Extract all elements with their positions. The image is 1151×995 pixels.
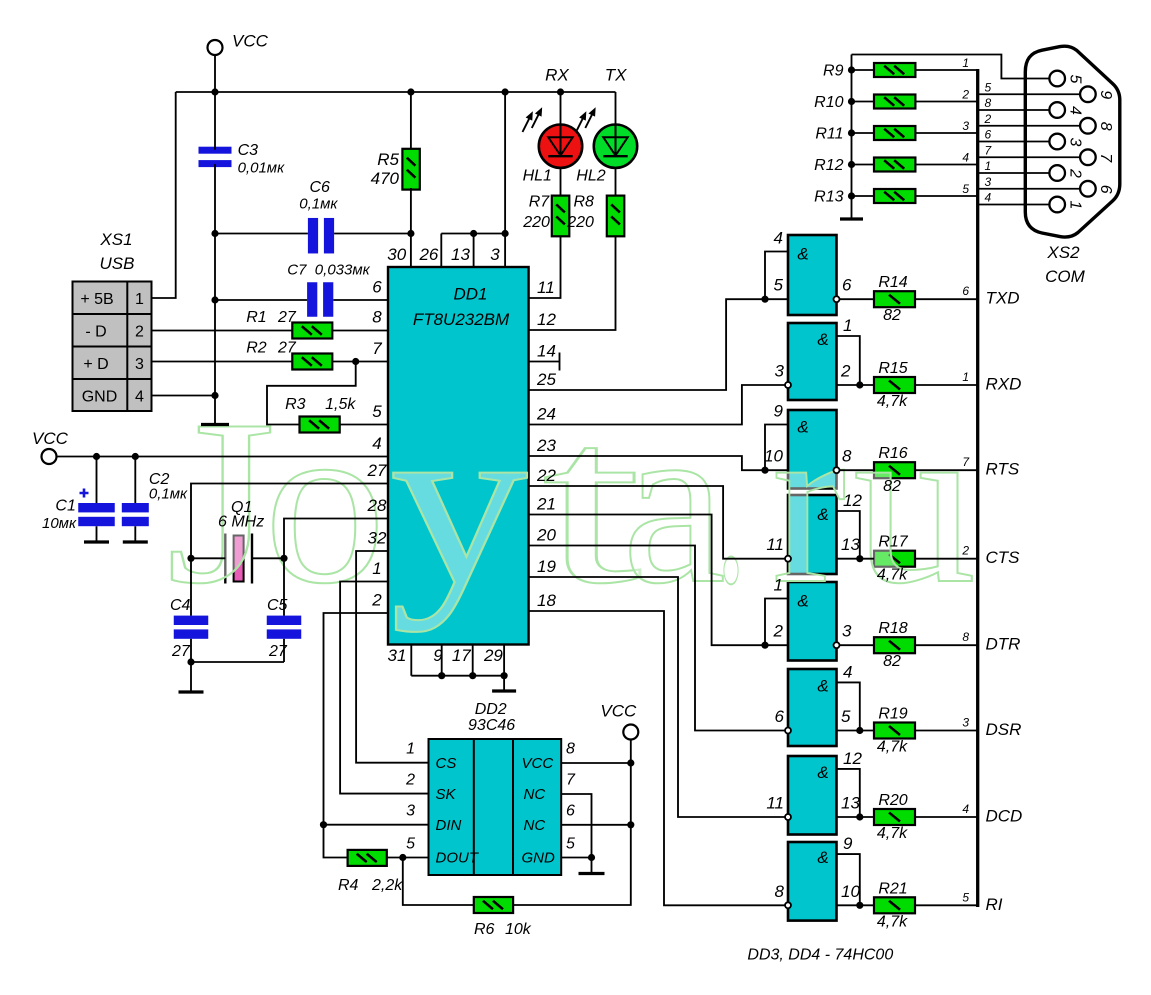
- svg-text:27: 27: [268, 643, 288, 660]
- svg-text:8: 8: [566, 741, 575, 758]
- gate DD4.3 output bubble: [785, 814, 791, 820]
- LED HL1 (RX, red): [539, 125, 582, 168]
- svg-text:25: 25: [536, 370, 556, 389]
- wire DD2 pin7 NC loop to GND: [561, 794, 591, 858]
- svg-text:3: 3: [775, 362, 785, 381]
- resistor R21 body: [874, 897, 915, 913]
- svg-text:TX: TX: [605, 65, 627, 84]
- wire R12 to COM bus: [915, 164, 977, 166]
- resistor R6 body: [474, 897, 513, 913]
- capacitor C1 plates (electrolytic): [78, 503, 115, 512]
- svg-text:R5: R5: [377, 150, 399, 169]
- capacitor C6 plates: [308, 218, 318, 254]
- svg-text:31: 31: [388, 646, 407, 665]
- svg-text:&: &: [817, 505, 828, 524]
- svg-text:USB: USB: [100, 254, 135, 273]
- wire crystal left lead: [191, 557, 225, 559]
- wire DD1 pin25 to gate DD3.1 input: [529, 299, 788, 390]
- node R12 at rail: [848, 161, 855, 168]
- wire DD1 bottom pins 31 9 17 29 to ground rail: [411, 645, 504, 676]
- svg-text:4,7k: 4,7k: [877, 825, 908, 842]
- svg-text:5: 5: [406, 836, 415, 853]
- node DD2 ground junction: [588, 854, 595, 861]
- svg-text:4,7k: 4,7k: [877, 739, 908, 756]
- svg-text:4,7k: 4,7k: [877, 567, 908, 584]
- wire bus to XS2 pin 7: [978, 156, 1080, 158]
- svg-text:NC: NC: [524, 817, 546, 834]
- wire gate DD4.3 input from R20: [837, 816, 875, 818]
- svg-text:2,2k: 2,2k: [371, 877, 403, 894]
- svg-text:R10: R10: [814, 94, 843, 111]
- wire bus to XS2 pin 2: [978, 172, 1050, 174]
- NAND gate DD3.2 body: [788, 323, 837, 400]
- svg-text:3: 3: [985, 175, 992, 189]
- svg-text:82: 82: [883, 653, 901, 670]
- svg-text:r: r: [772, 372, 846, 633]
- wire R2 to DD1 pin7: [332, 361, 388, 363]
- node R10 at rail: [848, 98, 855, 105]
- wire R9 to COM bus: [915, 69, 977, 71]
- resistor R8 body: [607, 196, 625, 237]
- wire top VCC rail y=92: [176, 91, 616, 93]
- resistor R16 body: [874, 462, 915, 478]
- XS1 row labels: [80, 291, 144, 406]
- svg-text:DTR: DTR: [986, 635, 1021, 654]
- svg-text:93C46: 93C46: [468, 717, 515, 734]
- XS2 pin 6 hole: [1080, 181, 1096, 197]
- svg-text:6: 6: [566, 803, 575, 820]
- wire R15 to COM bus: [915, 384, 977, 386]
- VCC symbol left: [42, 449, 57, 464]
- gate DD3.1 pin numbers: [774, 229, 852, 295]
- svg-text:RI: RI: [986, 895, 1003, 914]
- gate DD3.4 output bubble: [785, 556, 791, 562]
- svg-text:5: 5: [774, 276, 784, 295]
- svg-text:FT8U232BM: FT8U232BM: [413, 310, 510, 329]
- wire bus to XS2 pin 4: [978, 109, 1050, 111]
- svg-text:12: 12: [843, 491, 862, 510]
- svg-text:32: 32: [368, 529, 387, 548]
- gate DD4.3 pin numbers: [766, 749, 862, 813]
- wire DD1 pin2 to DD2 pin3 DIN: [324, 613, 389, 858]
- wire R8 to DD1 pin12: [529, 236, 616, 330]
- resistor R17 body: [874, 551, 915, 567]
- svg-text:2: 2: [135, 323, 144, 340]
- svg-text:6: 6: [1097, 185, 1114, 194]
- svg-text:1: 1: [406, 741, 415, 758]
- XS2 pin 9 hole: [1080, 86, 1096, 102]
- COM signal names: [986, 289, 1023, 914]
- capacitor C7 plates: [307, 282, 317, 317]
- NAND gate DD4.2 body: [788, 669, 837, 746]
- svg-text:&: &: [817, 763, 828, 782]
- svg-text:R17: R17: [878, 534, 908, 551]
- svg-text:GND: GND: [82, 388, 118, 405]
- svg-text:3: 3: [962, 119, 969, 133]
- svg-text:5: 5: [1066, 75, 1083, 84]
- wire VCC to top rail: [214, 55, 216, 150]
- node DD4.3 input junction: [856, 813, 863, 820]
- connector XS2 DB9 shell: [1025, 46, 1120, 237]
- svg-text:8: 8: [985, 96, 992, 110]
- capacitor C5 plates: [267, 616, 302, 625]
- gate DD4.4 output bubble: [785, 902, 791, 908]
- IC DD1 FT8U232BM body: [388, 267, 529, 645]
- wire C2 leads: [134, 457, 136, 542]
- svg-text:DCD: DCD: [986, 807, 1023, 826]
- svg-text:28: 28: [367, 496, 387, 515]
- svg-text:7: 7: [1097, 153, 1114, 163]
- DD1 top pin numbers: [387, 245, 500, 264]
- svg-text:220: 220: [522, 214, 550, 231]
- svg-text:5: 5: [841, 707, 851, 726]
- wire gate DD4.2 input from R19: [837, 730, 875, 732]
- svg-text:VCC: VCC: [232, 32, 269, 51]
- svg-text:21: 21: [536, 495, 556, 514]
- svg-text:2: 2: [773, 622, 784, 641]
- svg-text:VCC: VCC: [32, 429, 69, 448]
- node pin3 at VCC rail: [502, 88, 509, 95]
- node DIN junction: [320, 821, 327, 828]
- wire XS1 pin1 to VCC rail: [152, 92, 176, 298]
- wire R18 to COM bus: [915, 644, 977, 646]
- wire HL2 column: [615, 92, 617, 196]
- wire R5 top to VCC rail: [410, 92, 412, 148]
- XS2 pin 1 hole: [1049, 197, 1065, 213]
- NAND gate DD4.1 body: [788, 582, 837, 661]
- svg-text:6: 6: [842, 276, 852, 295]
- svg-text:TXD: TXD: [986, 289, 1020, 308]
- NAND gate DD3.4 body: [788, 495, 837, 574]
- wire HL1 column: [560, 92, 562, 196]
- svg-text:C4: C4: [170, 597, 191, 614]
- wire DD1 pin21 to gate DD4.1 input: [529, 515, 788, 646]
- svg-text:2: 2: [1066, 168, 1083, 178]
- svg-text:&: &: [817, 848, 828, 867]
- svg-text:4,7k: 4,7k: [877, 393, 908, 410]
- svg-text:4,7k: 4,7k: [877, 913, 908, 930]
- ground under crystal caps: [179, 690, 204, 693]
- wire R1 to DD1 pin8: [332, 330, 388, 332]
- svg-text:DD1: DD1: [453, 285, 487, 304]
- svg-text:C1: C1: [55, 498, 75, 515]
- resistor R15 body: [874, 377, 915, 393]
- svg-text:24: 24: [536, 405, 556, 424]
- svg-text:R15: R15: [878, 360, 907, 377]
- wire R4 to DD2 DOUT: [387, 857, 429, 859]
- wire R20 to COM bus: [915, 816, 977, 818]
- LED HL2 (TX, green): [594, 125, 637, 168]
- crystal Q1: [225, 534, 252, 584]
- gate DD4.4 pin numbers: [775, 834, 861, 901]
- wire gate DD4.2 tied input loop: [837, 682, 860, 730]
- svg-text:DOUT: DOUT: [436, 850, 480, 867]
- resistor R12 body: [874, 158, 915, 172]
- svg-text:C7 0,033мк: C7 0,033мк: [287, 261, 370, 278]
- node pin9 ground junction: [438, 672, 445, 679]
- node crystal right junction: [280, 555, 287, 562]
- svg-text:7: 7: [566, 772, 576, 789]
- node pin29 ground junction: [501, 672, 508, 679]
- svg-text:9: 9: [843, 834, 853, 853]
- svg-text:C6: C6: [309, 179, 330, 196]
- wire XS1 pin4 (GND): [152, 395, 216, 397]
- svg-text:XS2: XS2: [1046, 243, 1080, 262]
- svg-text:2: 2: [840, 362, 851, 381]
- wire R5 bottom to DD1 pin30: [410, 188, 412, 267]
- svg-text:DD2: DD2: [475, 701, 507, 718]
- node XS1 pin4 on ground column: [211, 392, 218, 399]
- svg-text:1: 1: [843, 316, 852, 335]
- wire R3 to DD1 pin5: [340, 424, 388, 426]
- wire rail to R11: [852, 132, 875, 134]
- svg-text:11: 11: [766, 535, 784, 554]
- Joyta.ru watermark: [166, 372, 976, 633]
- NAND gate DD4.3 body: [788, 756, 837, 835]
- svg-text:3: 3: [490, 245, 500, 264]
- wire rail to R12: [852, 164, 875, 166]
- wire DD2 pin6 NC: [561, 824, 631, 826]
- node R9 at rail: [848, 66, 855, 73]
- wire DD2 pin8 VCC: [561, 762, 631, 764]
- svg-text:10k: 10k: [505, 921, 532, 938]
- node top rail junction: [211, 88, 218, 95]
- wire gate DD4.3 tied input loop: [837, 769, 860, 817]
- svg-text:DIN: DIN: [436, 817, 462, 834]
- node DD3.2 input junction: [856, 381, 863, 388]
- DD2 pin numbers: [405, 741, 576, 853]
- wire DD1 pin23 to gate DD3.3 input: [529, 456, 788, 470]
- svg-text:26: 26: [418, 245, 438, 264]
- NAND gate DD3.1 body: [788, 235, 837, 315]
- svg-text:4: 4: [1066, 106, 1083, 115]
- svg-text:4: 4: [962, 151, 969, 165]
- wire R19 to COM bus: [915, 730, 977, 732]
- wire R16 to COM bus: [915, 469, 977, 471]
- COM cable bus: [976, 69, 979, 907]
- XS2 pin 3 hole: [1049, 134, 1065, 150]
- wire gate DD4.1 output to R18: [840, 644, 875, 646]
- node pin3 at y233 line: [502, 230, 509, 237]
- XS2 pin 2 hole: [1049, 165, 1065, 181]
- gate DD4.2 output bubble: [785, 728, 791, 734]
- svg-text:COM: COM: [1045, 267, 1086, 286]
- node DD2 pin6 at VCC column: [627, 821, 634, 828]
- svg-text:&: &: [817, 330, 828, 349]
- svg-text:6: 6: [985, 128, 992, 142]
- wire R17 to COM bus: [915, 558, 977, 560]
- wire DD1 pin27 to crystal column: [191, 484, 388, 616]
- svg-text:3: 3: [842, 622, 852, 641]
- wire bus to XS2 pin 3: [978, 141, 1050, 143]
- svg-text:R14: R14: [878, 274, 907, 291]
- svg-text:8: 8: [962, 630, 969, 644]
- ground under DD1: [492, 689, 516, 692]
- wire bus to XS2 pin 6: [978, 188, 1080, 190]
- node R2 output / R3 tap: [352, 358, 359, 365]
- svg-text:J: J: [166, 372, 276, 633]
- node DD4.1 input junction: [761, 642, 768, 649]
- svg-text:CS: CS: [436, 755, 457, 772]
- svg-text:0,1мк: 0,1мк: [149, 486, 188, 503]
- resistor R3 body: [300, 417, 340, 433]
- svg-text:4: 4: [962, 802, 969, 816]
- wire gate DD4.3 output to DD1 pin19: [529, 577, 785, 817]
- wire gate DD3.4 tied input loop: [837, 511, 860, 559]
- ground under C2: [123, 540, 148, 543]
- wire VCC rail to DD1 pin4: [57, 456, 389, 458]
- bus pin numbers right side: [984, 80, 993, 204]
- VCC symbol at DD2: [623, 725, 638, 740]
- wire DD2 ground drop: [591, 858, 593, 873]
- resistor R1 body: [292, 323, 332, 339]
- wire DD1 pin14 no-connect stub: [529, 353, 560, 371]
- svg-text:0,1мк: 0,1мк: [299, 196, 338, 213]
- svg-text:13: 13: [841, 535, 860, 554]
- wire DD1 pin28 to crystal right column: [284, 519, 388, 616]
- wire R7 to DD1 pin11: [529, 236, 561, 298]
- wire gate DD3.2 tied input loop: [837, 336, 860, 385]
- svg-text:C5: C5: [267, 597, 288, 614]
- wire gate DD4.4 output to DD1 pin18: [529, 611, 785, 905]
- wire gate DD4.4 input from R21: [837, 904, 875, 906]
- svg-text:82: 82: [883, 307, 901, 324]
- wire C4-C5 ground link: [191, 661, 284, 663]
- XS2 pin 4 hole: [1049, 102, 1065, 118]
- svg-text:R7: R7: [529, 194, 551, 211]
- svg-text:5: 5: [962, 182, 969, 196]
- XS2 pin 5 hole: [1049, 71, 1065, 87]
- svg-text:- D: - D: [85, 323, 106, 340]
- node DD3.1 input junction: [761, 296, 768, 303]
- svg-text:R6: R6: [474, 921, 495, 938]
- wire C7 / DD1 pin6 line: [215, 299, 388, 301]
- gate DD4.1 output bubble: [834, 642, 840, 648]
- node C6 line at pin30 column: [407, 230, 414, 237]
- svg-text:10: 10: [841, 882, 860, 901]
- svg-text:29: 29: [483, 646, 503, 665]
- svg-text:1: 1: [962, 56, 969, 70]
- svg-text:&: &: [817, 676, 828, 695]
- svg-text:XS1: XS1: [99, 230, 132, 249]
- svg-text:4: 4: [843, 662, 852, 681]
- svg-text:SK: SK: [436, 786, 457, 803]
- resistor R4 body: [348, 850, 387, 866]
- svg-text:R2: R2: [246, 340, 267, 357]
- resistor R18 body: [874, 637, 915, 653]
- wire gate DD4.1 tied input loop: [765, 599, 788, 646]
- svg-text:R21: R21: [878, 880, 907, 897]
- resistor R9 body: [874, 63, 915, 77]
- svg-text:2: 2: [961, 88, 969, 102]
- ground under DD2: [579, 872, 605, 875]
- wire gate DD3.2 input from R15: [837, 384, 875, 386]
- svg-text:18: 18: [537, 591, 556, 610]
- svg-text:30: 30: [387, 245, 406, 264]
- svg-text:20: 20: [536, 526, 556, 545]
- svg-text:23: 23: [536, 436, 556, 455]
- wire gate DD4.2 output to DD1 pin20: [529, 546, 785, 731]
- svg-text:3: 3: [135, 356, 144, 373]
- node R13 at rail: [848, 192, 855, 199]
- svg-text:4: 4: [135, 388, 144, 405]
- ground under C1: [84, 540, 109, 543]
- svg-text:13: 13: [841, 794, 860, 813]
- gate DD3.3 output bubble: [834, 467, 840, 473]
- gate DD3.3 pin numbers: [764, 402, 852, 466]
- gate DD4.1 pin numbers: [773, 576, 852, 641]
- wire R21 to COM bus: [915, 904, 977, 906]
- svg-text:HL1: HL1: [523, 168, 552, 185]
- wire DD2 pin5 GND: [561, 857, 591, 859]
- svg-text:27: 27: [277, 340, 297, 357]
- resistor R19 body: [874, 723, 915, 739]
- svg-text:R12: R12: [814, 157, 843, 174]
- svg-text:8: 8: [372, 308, 382, 327]
- svg-text:4: 4: [372, 434, 381, 453]
- wire gate DD3.4 output to DD1 pin22: [529, 486, 785, 559]
- DD2 internal pin names: [436, 755, 556, 867]
- svg-text:&: &: [797, 592, 808, 611]
- svg-text:GND: GND: [522, 850, 556, 867]
- wire rail to R13: [852, 195, 875, 197]
- node R11 at rail: [848, 129, 855, 136]
- VCC symbol top: [208, 40, 223, 55]
- wire C1 leads: [96, 457, 98, 542]
- IC DD2 93C46 body: [429, 739, 562, 875]
- svg-text:DSR: DSR: [986, 720, 1022, 739]
- wire R9-R13 ground rail: [851, 55, 853, 219]
- svg-text:6: 6: [372, 278, 382, 297]
- svg-text:+ D: + D: [83, 356, 108, 373]
- wire gate DD3.1 tied input loop: [765, 252, 788, 300]
- svg-text:1: 1: [985, 159, 992, 173]
- wire XS1 pin3 to R2: [152, 361, 293, 363]
- wire C3 to ground rail: [214, 164, 216, 424]
- svg-text:R4: R4: [338, 877, 359, 894]
- svg-text:6 MHz: 6 MHz: [218, 514, 264, 531]
- svg-text:9: 9: [774, 402, 784, 421]
- svg-text:5: 5: [985, 80, 992, 94]
- wire DD1 pin1 to DD2 pin2 SK: [340, 582, 428, 794]
- svg-text:y: y: [390, 372, 528, 633]
- svg-text:RXD: RXD: [986, 375, 1022, 394]
- svg-text:27: 27: [367, 461, 387, 480]
- DD1 left pin numbers: [367, 278, 387, 610]
- wire DD1 pin26 riser: [441, 234, 505, 268]
- wire C5 bottom: [283, 639, 285, 662]
- XS2 pin 7 hole: [1080, 149, 1096, 165]
- node C7 line on ground column: [211, 296, 218, 303]
- ground under R9-R13 rail: [840, 217, 863, 220]
- svg-text:2: 2: [405, 772, 415, 789]
- XS2 pin 8 hole: [1080, 118, 1096, 134]
- svg-text:VCC: VCC: [522, 755, 554, 772]
- svg-text:8: 8: [1097, 122, 1114, 131]
- svg-text:5: 5: [566, 836, 575, 853]
- gate DD3.4 pin numbers: [766, 491, 862, 554]
- svg-text:17: 17: [452, 646, 471, 665]
- svg-text:19: 19: [537, 557, 556, 576]
- node DD4.4 input junction: [856, 902, 863, 909]
- wire R11 to COM bus: [915, 132, 977, 134]
- wire DD1 pin13 riser: [473, 234, 475, 268]
- LED HL2 arrows: [576, 108, 595, 132]
- svg-text:a: a: [622, 372, 726, 633]
- svg-text:R19: R19: [878, 706, 907, 723]
- svg-text:2: 2: [961, 544, 969, 558]
- svg-text:R13: R13: [814, 189, 843, 206]
